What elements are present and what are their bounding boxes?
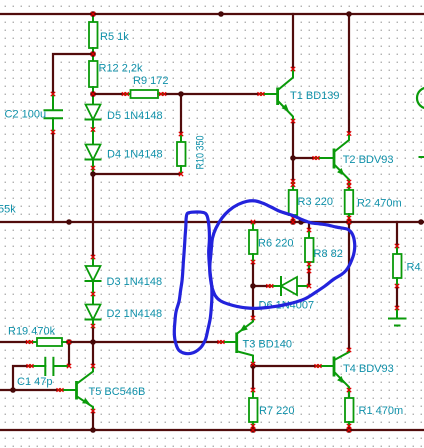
node bottom rail T5 (90, 427, 96, 433)
node T3 collector / T4 base / R7 (250, 363, 256, 369)
wire top rail to T2 collector (348, 14, 350, 133)
svg-text:R19 470k: R19 470k (8, 326, 56, 338)
wire bottom rail (0, 429, 424, 431)
pin T4 emitter (347, 388, 351, 392)
pin T1 emitter (291, 119, 295, 123)
pin T1 collector (291, 67, 295, 71)
transistor T2 (316, 134, 349, 187)
resistor R5 (89, 14, 98, 54)
pin C1 right (67, 364, 71, 368)
pin R6 top (251, 220, 255, 224)
pin T3 collector (251, 362, 255, 366)
node T1 emitter / T2 base / R3 (290, 155, 296, 161)
svg-text:R10 350: R10 350 (195, 136, 207, 170)
pin R7 bottom (251, 424, 255, 428)
diode D5 (86, 94, 101, 145)
wire node E to R3 top (292, 158, 294, 182)
diode D2 (86, 305, 101, 328)
pin R5 top (91, 12, 95, 16)
wire node E to T2 base (293, 157, 316, 159)
svg-text:T4 BDV93: T4 BDV93 (343, 363, 394, 375)
wire R10 bottom to D4 node (93, 173, 181, 175)
pin R19 right (67, 340, 71, 344)
node mid rail R3 (290, 219, 296, 225)
svg-text:R4 82: R4 82 (407, 262, 424, 274)
diode D6 (270, 277, 309, 295)
wire node R12/R9/D5 to R9 left pin (93, 93, 126, 95)
wire C1 left plate to T5 base wire (13, 366, 30, 390)
pin D3 anode (91, 255, 95, 259)
capacitor C2 (45, 94, 63, 132)
svg-text:C2 100u: C2 100u (5, 108, 47, 120)
pin D6 cathode (266, 284, 273, 288)
svg-text:R9 172: R9 172 (133, 75, 168, 87)
capacitor C1 (30, 358, 69, 375)
pin T5 base (57, 388, 64, 392)
lamp connector circle (417, 88, 424, 109)
pin R3 rail (291, 220, 295, 224)
pin T4 collector (347, 348, 351, 352)
wire R19 right to node B to T3 base (69, 341, 221, 343)
resistor R19 (29, 338, 69, 346)
pin R12 bottom / D5 anode (91, 92, 95, 96)
resistor R12 (89, 54, 98, 94)
wire R8 bottom to D6 anode (308, 267, 310, 286)
pin T3 base (218, 340, 225, 344)
svg-text:R5 1k: R5 1k (100, 31, 129, 43)
pin R8 top (307, 228, 311, 232)
wire R4 bottom to ground (396, 286, 398, 308)
svg-text:T3 BD140: T3 BD140 (243, 339, 293, 351)
pin R1 bottom (347, 424, 351, 428)
wire R10 top (180, 94, 182, 134)
pin T5 emitter (91, 409, 95, 413)
pin D6 anode (307, 284, 311, 288)
resistor R8 (305, 230, 314, 267)
node R19 / C1 (66, 339, 72, 345)
pin R8 bottom (307, 262, 311, 266)
pin R6 bottom (251, 260, 255, 264)
wire D6 cathode to D6 node (253, 285, 270, 287)
wire R19 node down to C1 right plate (68, 342, 70, 366)
pin R7 top (251, 388, 255, 392)
wire mid rail to T4 collector (348, 222, 350, 350)
node R9/R10 (178, 91, 184, 97)
pin D5 cathode (91, 127, 95, 131)
pin R4 bottom (395, 284, 399, 288)
wire T5 emitter to bottom rail (92, 411, 94, 430)
wire mid output rail (0, 221, 424, 223)
svg-text:T1 BD139: T1 BD139 (290, 90, 340, 102)
wire left input to T5 base (0, 389, 60, 391)
pin R4 top (395, 244, 399, 248)
node mid rail right (418, 219, 424, 225)
pin T1 base (258, 92, 265, 96)
freehand loop right (210, 201, 355, 309)
node mid rail a (66, 219, 72, 225)
node D4/R10 (90, 171, 96, 177)
node top rail / R5 (90, 11, 96, 17)
svg-text:D3 1N4148: D3 1N4148 (107, 276, 163, 288)
node top rail segment (218, 11, 224, 17)
wire T3 collector node to R7 top (252, 366, 254, 390)
wire T1 emitter to node E (292, 121, 294, 158)
svg-text:R12 2,2k: R12 2,2k (99, 63, 144, 75)
resistor R9 (126, 90, 162, 98)
pin ground (395, 306, 399, 310)
pin R2 top (347, 184, 351, 188)
svg-text:D4 1N4148: D4 1N4148 (107, 149, 163, 161)
pin R3 bottom (291, 216, 295, 220)
resistor R6 (249, 222, 258, 262)
wire node B down to T5 collector (92, 342, 94, 366)
pin T5 collector (91, 364, 95, 368)
pin T2 collector (347, 131, 351, 135)
svg-text:R2 470m: R2 470m (357, 198, 402, 210)
node mid rail b (298, 219, 304, 225)
resistor R2 (345, 186, 354, 222)
pin C2 bottom (51, 130, 55, 134)
node C1 / T5 base (10, 387, 16, 393)
pin R3 top (291, 179, 295, 183)
transistor T3 (221, 318, 253, 364)
svg-text:R7 220: R7 220 (259, 405, 294, 417)
svg-text:55k: 55k (0, 204, 16, 216)
pin R1 rail (347, 428, 351, 432)
svg-text:T5 BC546B: T5 BC546B (89, 386, 146, 398)
svg-text:D5 1N4148: D5 1N4148 (107, 110, 163, 122)
resistor R4 (393, 246, 402, 286)
wire left input to R19 (0, 341, 29, 343)
node D2 / R19 / T5 collector (90, 339, 96, 345)
pin D3 cathode (91, 292, 95, 296)
pin R9 right (159, 92, 166, 96)
svg-text:R1 470m: R1 470m (359, 405, 404, 417)
transistor T1 (261, 69, 293, 121)
pin C1 left (27, 364, 34, 368)
wire T3 collector node to T4 base (253, 365, 318, 367)
pin R7 rail (251, 428, 255, 432)
resistor R1 (345, 390, 354, 430)
pin R10 top (179, 132, 183, 136)
wire D6 node to T3 emitter (252, 286, 254, 318)
wire D4 node down across mid rail to D3 (92, 174, 94, 257)
resistor R3 (289, 182, 298, 222)
resistor R7 (249, 390, 258, 430)
node top rail / T2 collector (346, 11, 352, 17)
node bottom rail R1 (346, 427, 352, 433)
wire R9 right pin to T1 base (162, 93, 261, 95)
wire top supply rail (0, 13, 424, 15)
svg-text:T2 BDV93: T2 BDV93 (343, 154, 394, 166)
svg-text:R6 220: R6 220 (258, 238, 293, 250)
ground (389, 308, 406, 326)
svg-text:D2 1N4148: D2 1N4148 (107, 308, 163, 320)
pin T2 base (313, 156, 320, 160)
wire D2 bottom to node B (92, 327, 94, 342)
diode D4 (86, 145, 101, 175)
transistor T4 (318, 350, 349, 390)
wire mid rail to R4 top (396, 222, 398, 246)
wire top rail to T1 collector (292, 14, 294, 69)
freehand loop left (174, 212, 212, 354)
svg-text:R8 82: R8 82 (314, 248, 343, 260)
pin D2 cathode (91, 324, 95, 328)
pin R2 bottom (347, 216, 351, 220)
wire R6 bottom to D6 node (252, 262, 254, 286)
wire C2 bottom to mid rail (52, 132, 54, 222)
pin R5 bottom / R12 top (91, 52, 95, 56)
pin T2 emitter (347, 180, 351, 184)
node bottom rail R7 (250, 427, 256, 433)
node mid rail R2 / T4 (346, 219, 352, 225)
node R6 / D6 (250, 283, 256, 289)
svg-text:R3 220: R3 220 (298, 196, 333, 208)
pin T4 base (315, 364, 322, 368)
diode D3 (86, 257, 101, 305)
pin R9 left (122, 92, 129, 96)
pin D4 cathode (91, 166, 95, 170)
resistor R10 (177, 134, 186, 174)
node R12/R9/D5 (90, 91, 96, 97)
pin R10 bottom (179, 172, 183, 176)
node R5/R12/C2 (90, 51, 96, 57)
lamp pin stub (420, 156, 424, 158)
transistor T5 (60, 366, 93, 411)
pin T3 emitter (251, 316, 255, 320)
blue annotation (174, 201, 354, 354)
pin C2 top (51, 92, 55, 96)
wire mid rail to R8 top (308, 222, 310, 230)
wire T4 emitter to R1 top (348, 390, 350, 398)
pin R2 rail (347, 220, 351, 224)
pin R19 left (26, 340, 33, 344)
svg-text:C1 47p: C1 47p (17, 376, 52, 388)
wire C2 top to R5/R12 node (53, 54, 93, 94)
